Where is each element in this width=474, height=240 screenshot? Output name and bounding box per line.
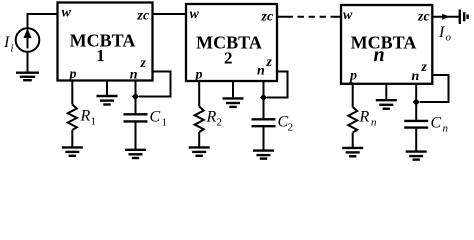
svg-text:1: 1 [96, 46, 105, 65]
svg-text:w: w [343, 8, 353, 23]
wire n_n stub down [415, 84, 417, 120]
svg-text:n: n [412, 69, 420, 84]
svg-text:R: R [80, 108, 91, 125]
svg-text:2: 2 [217, 117, 223, 129]
svg-text:I: I [438, 24, 445, 41]
svg-text:R: R [206, 109, 217, 126]
wire p1 stub [71, 81, 73, 105]
svg-text:R: R [359, 109, 370, 126]
wire zc_n output [432, 16, 459, 18]
wire p2 stub [198, 81, 200, 107]
junction node n_n [413, 98, 420, 105]
svg-text:p: p [349, 69, 357, 84]
MCBTA block U2 [186, 4, 277, 81]
svg-text:I: I [3, 34, 10, 51]
resistor R1 [68, 105, 77, 131]
junction node n1 [132, 93, 139, 100]
svg-text:n: n [257, 64, 265, 79]
wire mid stub (U1 ground) [106, 81, 108, 96]
ground (R1) [62, 147, 83, 155]
svg-text:zc: zc [261, 10, 274, 25]
capacitor C2 [252, 119, 276, 126]
current source I_i [16, 28, 40, 52]
capacitor C1 [124, 114, 148, 121]
svg-text:n: n [443, 123, 449, 135]
ground (Un mid) [376, 100, 397, 109]
ground (R2) [189, 147, 210, 155]
wire z1 loop to node n1 [139, 72, 171, 97]
svg-text:zc: zc [137, 9, 150, 24]
svg-text:p: p [195, 68, 203, 83]
svg-text:o: o [446, 32, 452, 44]
MCBTA block U1 [58, 3, 153, 81]
ground (source) [16, 73, 39, 81]
ground (C1) [125, 150, 146, 158]
wire source bottom [27, 52, 29, 72]
svg-text:1: 1 [91, 116, 97, 128]
svg-text:zc: zc [417, 10, 430, 25]
wire z2 loop to node n2 [267, 72, 288, 98]
svg-text:n: n [371, 117, 377, 129]
svg-text:C: C [431, 115, 442, 132]
wire n2 stub down [263, 81, 265, 119]
ground (Rn) [342, 148, 363, 156]
wire z_n loop to node n_n [420, 75, 449, 102]
wire mid stub (Un ground) [385, 84, 387, 99]
capacitor Cn [404, 121, 428, 128]
ground (output, sideways) [460, 10, 468, 25]
svg-text:z: z [421, 60, 428, 75]
wire zc2 dashed to w of Un [277, 16, 341, 18]
svg-text:w: w [62, 6, 72, 21]
ground (C2) [253, 151, 274, 159]
svg-text:2: 2 [288, 122, 294, 134]
svg-text:i: i [11, 43, 14, 55]
junction node n2 [260, 94, 267, 101]
wire zc1 to w2 [153, 13, 187, 15]
ground (Cn) [406, 152, 427, 160]
wire input top [28, 14, 58, 29]
svg-text:p: p [69, 67, 77, 82]
svg-text:w: w [190, 7, 200, 22]
svg-text:n: n [130, 68, 138, 83]
svg-text:C: C [150, 109, 161, 126]
wire n1 stub down [135, 81, 137, 114]
MCBTA block Un [341, 5, 432, 84]
resistor R2 [195, 107, 204, 133]
svg-text:z: z [140, 56, 147, 71]
wire mid stub (U2 ground) [232, 81, 234, 98]
ground (U2 mid) [223, 98, 244, 107]
arrowhead output current [442, 14, 450, 20]
svg-text:z: z [266, 55, 273, 70]
svg-text:1: 1 [162, 117, 168, 129]
ground (U1 mid) [97, 96, 118, 105]
resistor Rn [348, 107, 357, 133]
svg-text:n: n [373, 44, 384, 66]
svg-text:2: 2 [224, 49, 233, 68]
wire p_n stub [352, 84, 354, 107]
